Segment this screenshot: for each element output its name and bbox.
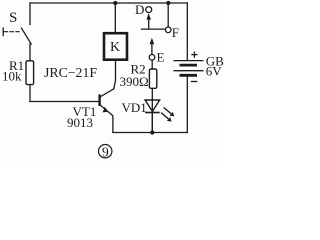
switch S actuator bar xyxy=(2,28,4,36)
wire switch to R1 xyxy=(29,44,31,61)
battery minus sign xyxy=(191,81,198,83)
wire switch stub from top rail xyxy=(29,3,31,25)
svg-text:VD1: VD1 xyxy=(122,100,147,115)
battery plus sign xyxy=(191,52,197,58)
svg-text:9013: 9013 xyxy=(67,115,93,130)
wire VD1 to bottom rail xyxy=(151,113,153,133)
svg-text:D: D xyxy=(135,2,144,17)
wire F terminal to top rail xyxy=(167,3,169,27)
svg-text:S: S xyxy=(9,10,17,26)
wire right rail lower (battery - to bottom) xyxy=(186,76,188,132)
svg-text:10k: 10k xyxy=(2,69,22,84)
svg-text:6V: 6V xyxy=(206,64,223,79)
svg-text:9: 9 xyxy=(102,144,109,159)
svg-text:E: E xyxy=(157,50,165,65)
svg-text:K: K xyxy=(110,40,120,55)
wire R1 to base rail xyxy=(29,85,31,102)
relay coil K xyxy=(104,33,127,60)
wire right rail upper (to battery +) xyxy=(186,3,188,60)
wire base rail to VT1 xyxy=(30,101,99,103)
svg-text:F: F xyxy=(172,25,179,40)
LED VD1 xyxy=(145,100,160,113)
transistor VT1 emitter arrow xyxy=(103,107,109,113)
wire K coil to VT1 collector xyxy=(114,60,116,89)
contact terminal F xyxy=(165,27,171,33)
resistor R2 xyxy=(149,69,156,88)
node junction F top xyxy=(166,1,170,5)
wire R2 to VD1 xyxy=(151,88,153,132)
svg-text:JRC−21F: JRC−21F xyxy=(44,65,97,80)
figure number 9 xyxy=(99,145,112,158)
wire K coil to top rail xyxy=(114,3,116,33)
transistor VT1 xyxy=(100,89,114,133)
node junction K top xyxy=(113,1,117,5)
wire top rail xyxy=(30,2,187,4)
contact moving arm arrow at E xyxy=(151,43,153,54)
contact moving arm arrow at D xyxy=(148,18,150,29)
switch S actuator dashed link xyxy=(4,31,21,33)
LED VD1 light arrows xyxy=(161,107,174,121)
svg-text:390Ω: 390Ω xyxy=(120,74,149,89)
contact arm bar D-F xyxy=(141,28,166,30)
wire bottom rail xyxy=(113,132,187,134)
switch S lever xyxy=(22,28,32,44)
battery GB xyxy=(174,61,204,76)
contact terminal D xyxy=(146,7,152,13)
resistor R1 xyxy=(26,61,34,85)
node junction VD1 bottom xyxy=(150,130,154,134)
wire E terminal to R2 xyxy=(151,60,153,69)
contact terminal E xyxy=(149,55,155,61)
